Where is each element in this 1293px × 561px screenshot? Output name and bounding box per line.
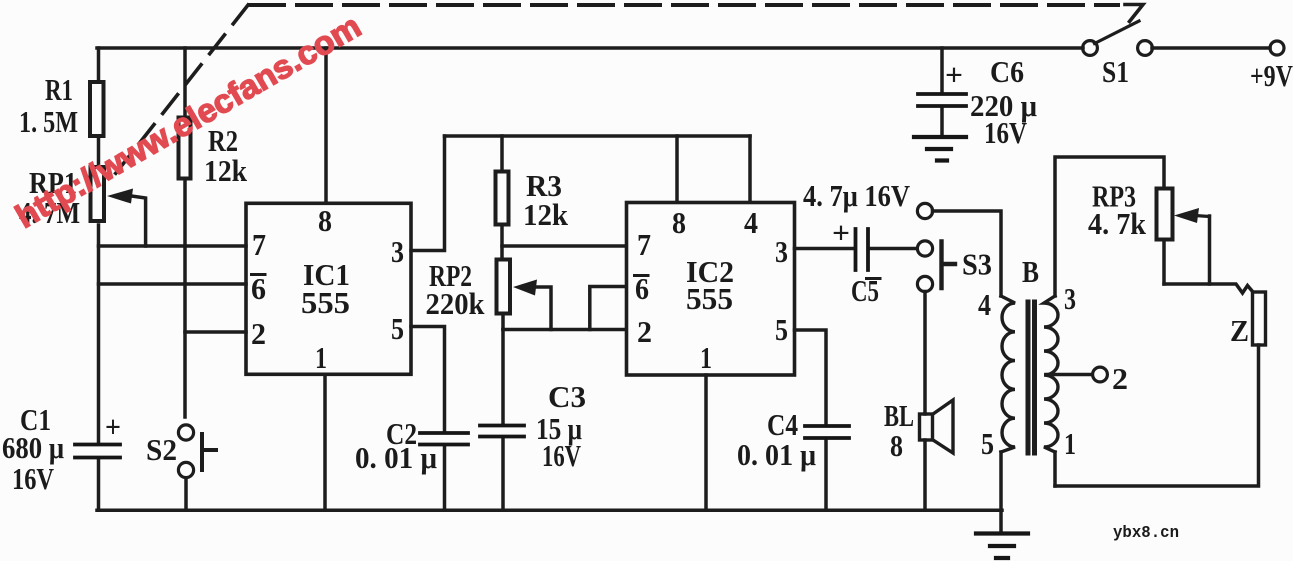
wire bottom ground rail bbox=[97, 509, 1002, 513]
wire C2 bottom lead bbox=[443, 446, 447, 510]
wire RP3 wiper drop bbox=[1208, 216, 1212, 284]
battery +9V terminal bbox=[1270, 41, 1284, 55]
svg-text:8: 8 bbox=[318, 203, 332, 238]
capacitor C2 plates bbox=[420, 433, 468, 445]
wire IC2 pin6 jog to pin2 line bbox=[590, 287, 626, 330]
svg-text:1: 1 bbox=[700, 340, 712, 375]
wire IC1 pin2 line bbox=[185, 330, 246, 334]
wire top +9V rail bbox=[97, 46, 1083, 50]
svg-text:8: 8 bbox=[890, 428, 903, 463]
svg-text:4: 4 bbox=[978, 287, 991, 322]
svg-text:16V: 16V bbox=[542, 438, 581, 473]
svg-text:Z: Z bbox=[1230, 313, 1249, 348]
wire secondary bottom lead bbox=[1053, 452, 1057, 486]
speaker BL cone bbox=[933, 400, 953, 453]
wire S3 top contact to transformer primary bbox=[933, 211, 1002, 296]
transformer B primary winding bbox=[1001, 296, 1015, 452]
svg-text:8: 8 bbox=[672, 205, 686, 240]
wire C5 to S3 middle contact bbox=[870, 247, 917, 251]
svg-text:S1: S1 bbox=[1102, 54, 1129, 89]
ground under C6 bbox=[914, 137, 966, 161]
svg-text:S2: S2 bbox=[146, 432, 177, 467]
svg-text:C3: C3 bbox=[548, 379, 586, 414]
switch S3 actuator bbox=[942, 242, 956, 289]
svg-text:3: 3 bbox=[1064, 281, 1076, 316]
svg-text:5: 5 bbox=[391, 311, 404, 346]
svg-text:1. 5M: 1. 5M bbox=[19, 104, 78, 139]
svg-text:2: 2 bbox=[1112, 361, 1128, 396]
wire RP2 wiper drop bbox=[536, 287, 551, 330]
switch S2 contacts bbox=[178, 425, 193, 440]
wire secondary top to RP3 loop bbox=[1055, 157, 1164, 296]
svg-text:0. 01 μ: 0. 01 μ bbox=[737, 437, 816, 472]
svg-text:+: + bbox=[945, 57, 963, 92]
svg-text:1: 1 bbox=[1064, 426, 1076, 461]
svg-text:2: 2 bbox=[251, 316, 266, 351]
wire transformer primary bottom to rail bbox=[999, 452, 1003, 533]
resistor R2 bbox=[179, 118, 191, 179]
wire RP3 wiper arrow shaft bbox=[1195, 216, 1210, 217]
wire IC2 pin1 column bbox=[704, 375, 708, 510]
svg-text:680 μ: 680 μ bbox=[2, 430, 64, 465]
wire C4 bottom lead bbox=[824, 440, 828, 510]
timer IC2 box bbox=[627, 203, 795, 376]
svg-text:4: 4 bbox=[744, 205, 758, 240]
switch S2 actuator bbox=[202, 434, 216, 470]
wire IC2 pin7 line bbox=[502, 244, 626, 248]
svg-text:+9V: +9V bbox=[1250, 58, 1293, 93]
wire RP2 bottom to pin2 line bbox=[501, 315, 505, 330]
svg-text:12k: 12k bbox=[204, 153, 248, 188]
mechanical link dashed line horizontal bbox=[250, 3, 1118, 7]
svg-text:2: 2 bbox=[637, 314, 652, 349]
wire IC2 pin3 to C5 bbox=[795, 247, 854, 251]
resistor R3 bbox=[496, 172, 509, 225]
wire S2 bottom lead bbox=[184, 478, 188, 510]
svg-text:B: B bbox=[1022, 254, 1039, 289]
ground under transformer primary bbox=[976, 534, 1028, 559]
transformer B secondary winding bbox=[1044, 296, 1058, 452]
wire C6 to ground symbol bbox=[940, 108, 944, 135]
overbar of C5 label bbox=[867, 277, 881, 280]
overbar of IC2 pin 6 bbox=[635, 274, 649, 277]
svg-text:555: 555 bbox=[301, 285, 350, 320]
wire RP3 bottom lead bbox=[1162, 241, 1166, 284]
wire R2 column bbox=[183, 48, 187, 417]
svg-text:0. 01 μ: 0. 01 μ bbox=[355, 440, 437, 475]
wire bottom loop to Z bbox=[1055, 345, 1259, 486]
svg-text:3: 3 bbox=[775, 234, 788, 269]
svg-text:12k: 12k bbox=[523, 197, 569, 232]
wire C3 bottom lead bbox=[501, 438, 505, 510]
svg-text:R1: R1 bbox=[45, 72, 73, 107]
svg-text:5: 5 bbox=[775, 312, 788, 347]
svg-text:16V: 16V bbox=[12, 461, 54, 496]
mechanical link arrow to S1 bbox=[1125, 5, 1143, 22]
capacitor C5 plates bbox=[856, 229, 869, 270]
wire upper bus to IC2 pins 8 and 4 bbox=[445, 134, 751, 138]
svg-text:7: 7 bbox=[637, 227, 651, 262]
wire S3 bottom contact to speaker bbox=[923, 292, 927, 415]
svg-text:ybx8.cn: ybx8.cn bbox=[1113, 524, 1179, 543]
op-amp U1 is actually timer IC1 box bbox=[246, 203, 411, 374]
wire IC1 pin5 to C2 bbox=[411, 327, 445, 432]
wire C3 top column bbox=[501, 330, 505, 424]
svg-text:220k: 220k bbox=[426, 286, 486, 321]
potentiometer RP2 body bbox=[497, 260, 511, 314]
svg-text:1: 1 bbox=[315, 340, 327, 375]
wire R3 to RP2 segment bbox=[500, 226, 504, 258]
wire RP1 wiper to pin7 line bbox=[128, 196, 146, 247]
potentiometer RP1 body bbox=[91, 167, 105, 221]
potentiometer RP3 wiper arrow bbox=[1174, 208, 1199, 223]
wire IC1 pin8 column bbox=[324, 48, 328, 203]
svg-text:555: 555 bbox=[686, 281, 733, 316]
capacitor C6 plates bbox=[918, 94, 966, 106]
svg-text:C6: C6 bbox=[990, 54, 1024, 89]
wire IC1 pin3 to upper bus bbox=[411, 136, 445, 251]
resistor R1 bbox=[90, 82, 104, 136]
capacitor C3 plates bbox=[480, 426, 524, 437]
svg-text:7: 7 bbox=[252, 227, 266, 262]
wire IC2 pin2 line bbox=[503, 328, 626, 332]
potentiometer RP3 body bbox=[1157, 189, 1173, 240]
svg-text:+: + bbox=[832, 215, 850, 250]
wire left rail bbox=[97, 48, 101, 510]
wire IC1 pin1 column bbox=[323, 375, 327, 510]
earphone Z body bbox=[1253, 292, 1266, 345]
wire IC1 pin6 line bbox=[99, 282, 247, 286]
svg-text:3: 3 bbox=[391, 234, 404, 269]
switch S1 contacts bbox=[1083, 41, 1098, 56]
transformer B core bbox=[1028, 302, 1035, 453]
svg-text:16V: 16V bbox=[984, 115, 1027, 150]
wire IC1 pin7 line bbox=[99, 244, 247, 248]
wire speaker to ground rail bbox=[923, 440, 927, 510]
wire IC2 pin5 to C4 bbox=[795, 330, 827, 424]
svg-text:4. 7μ 16V: 4. 7μ 16V bbox=[803, 178, 911, 213]
wire RP3 bottom node to Z bbox=[1164, 284, 1253, 293]
svg-text:S3: S3 bbox=[962, 247, 992, 282]
wire center tap lead bbox=[1046, 373, 1092, 377]
wire IC2 pin4 column bbox=[748, 136, 752, 202]
potentiometer RP2 wiper arrow bbox=[513, 280, 537, 296]
wire IC2 pin8 column bbox=[675, 136, 679, 202]
switch S3 contacts bbox=[917, 203, 932, 218]
svg-text:+: + bbox=[105, 409, 121, 444]
svg-text:4. 7k: 4. 7k bbox=[1088, 206, 1147, 241]
wire R3 top column bbox=[500, 136, 504, 170]
overbar of IC1 pin 6 bbox=[252, 273, 266, 276]
capacitor C4 plates bbox=[805, 426, 849, 438]
wire top rail right of S1 bbox=[1152, 46, 1270, 50]
switch S1 lever bbox=[1095, 21, 1140, 44]
mechanical link dashed diagonal to RP1 bbox=[112, 5, 248, 178]
speaker BL driver box bbox=[920, 414, 933, 440]
potentiometer RP1 wiper arrow bbox=[107, 189, 133, 204]
wire C6 top lead bbox=[940, 48, 944, 92]
terminal node 2 center tap bbox=[1093, 367, 1108, 382]
capacitor C1 plates bbox=[75, 445, 120, 458]
svg-text:5: 5 bbox=[981, 426, 994, 461]
svg-text:6: 6 bbox=[251, 271, 266, 306]
